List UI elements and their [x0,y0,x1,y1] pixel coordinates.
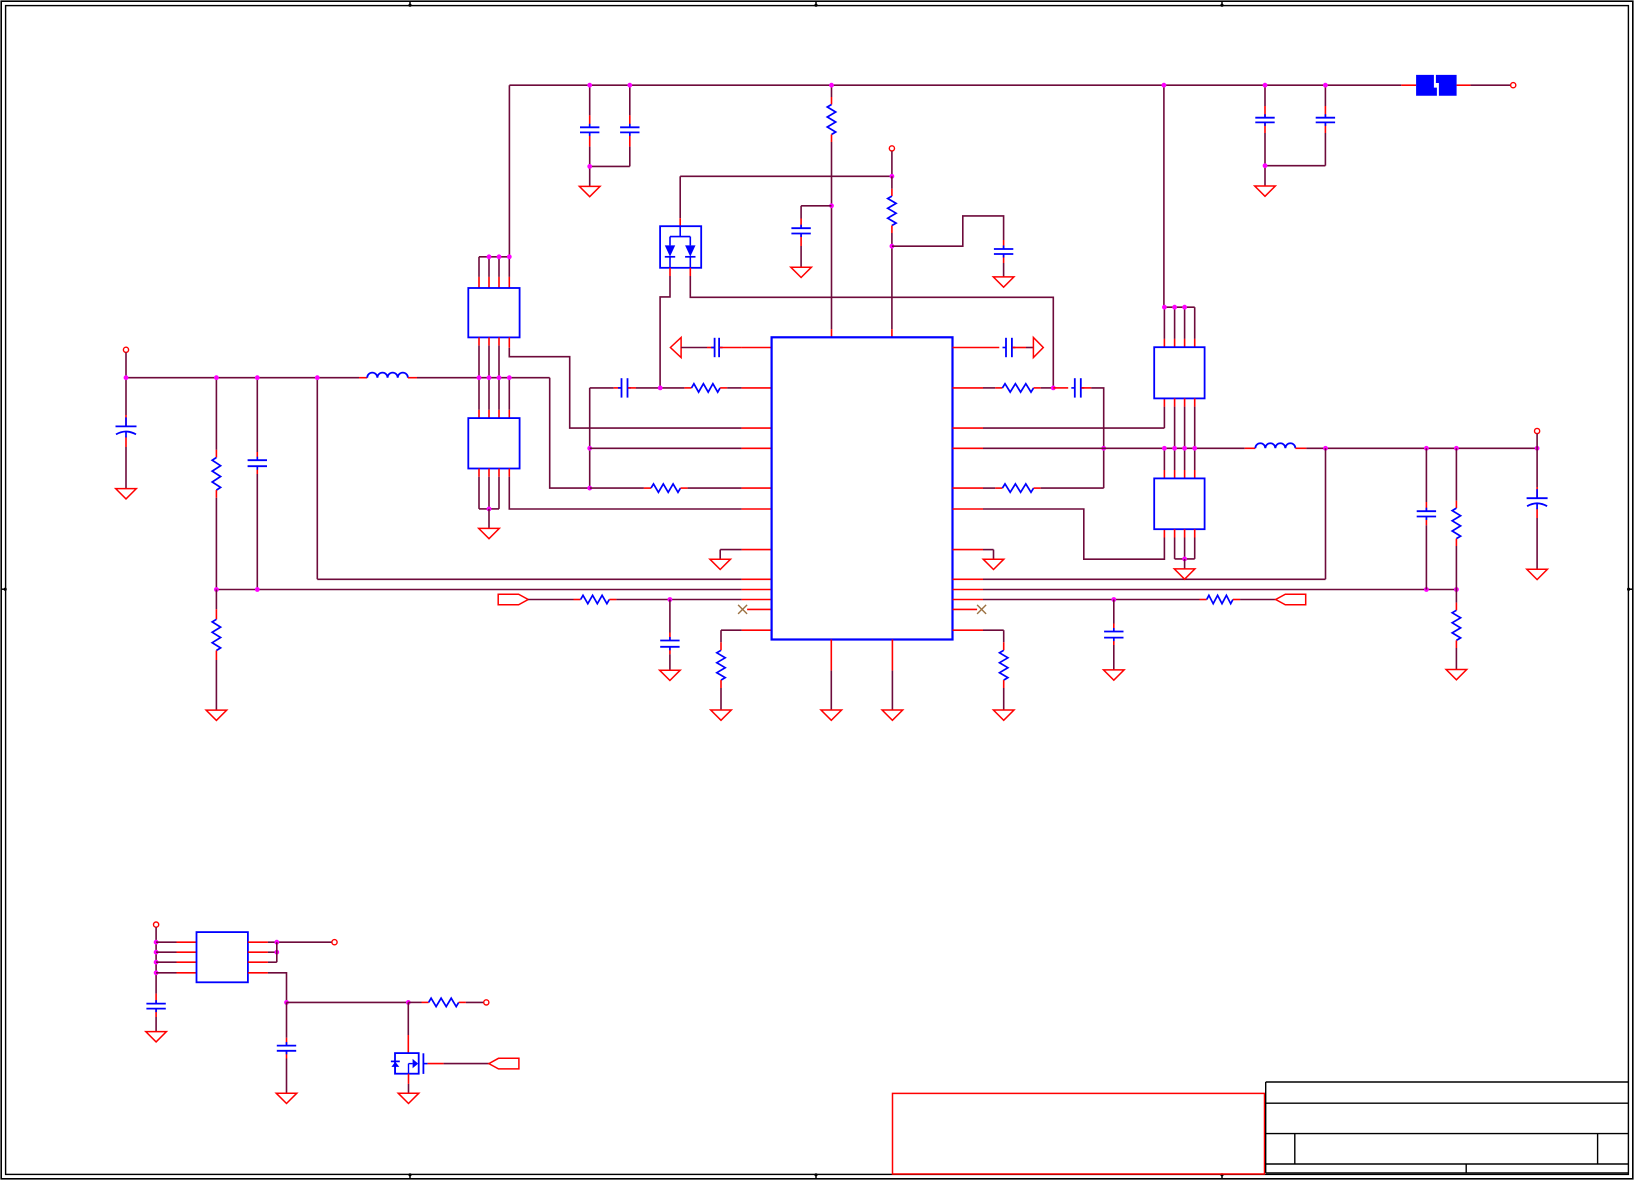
junction [587,164,592,169]
wire T3b pin4 bottom [1194,529,1196,559]
capacitor C3 [791,225,810,237]
junction [587,83,592,88]
junction [1192,446,1197,451]
ground G10 [711,710,732,720]
resistor R7 [581,595,610,603]
junction [1424,587,1429,592]
border zone tick bottom [814,1173,817,1179]
wire R6 top [215,590,217,620]
wire C15 stem [1536,448,1538,569]
wire T2b pin1 bottom [479,469,489,509]
junction [124,375,129,380]
wire T4 down [1536,434,1538,449]
terminal VBUS right [1511,83,1516,88]
wire node to R15 [408,1001,428,1003]
capacitor C2 [620,124,639,136]
wire U1 to R10 [953,487,1003,489]
junction [487,375,492,380]
wire C8 stem [256,378,258,590]
wire C13 corner down [1081,388,1103,488]
wire J1 right stub [1457,84,1471,86]
ground G3 [1255,186,1276,196]
junction [829,83,834,88]
wire F1 to R7 [528,599,580,601]
wire T3a pin2 bottom [1174,398,1176,478]
resistor R14 [1000,650,1008,680]
wire U2 pin4 down [248,973,287,1003]
wire bundle pin1 top [478,257,480,288]
wire R2 top [891,176,893,196]
diode pack D1 box [660,226,701,268]
capacitor C10 [618,378,631,397]
wire R13 to F2 [1233,599,1276,601]
wire Q1 drain [407,1002,409,1053]
wire T2 down [891,151,893,176]
wire C18 stem [286,1002,288,1093]
junction [154,940,159,945]
wire C9 to U1 [720,347,772,349]
junction [1051,386,1056,391]
ic U2 [197,932,248,982]
capacitor C8 [248,457,267,470]
junction [255,587,260,592]
wire row549 left [720,550,771,560]
capacitor C18 [277,1042,296,1054]
wire T3a pin1 top [1163,307,1165,347]
junction [1535,446,1540,451]
junction [1323,83,1328,88]
wire T2a pin2 bottom [488,337,490,409]
ground G14 [1446,670,1467,680]
terminal T2 [889,146,894,151]
wire C10 drop [589,388,591,488]
resistor R2 [888,196,896,225]
wire T3a pin4 bottom [1194,398,1196,478]
wire R15 to T7 [459,1001,484,1003]
wire T3 down [125,352,127,377]
wire R8 bottom [720,680,722,710]
resistor R11 [1452,508,1460,538]
port arrow P2 [1033,338,1043,358]
wire C1 stem [589,85,591,166]
junction [214,375,219,380]
wire U1 row599 right [953,599,1207,601]
resistor R5 [651,484,681,492]
capacitor C13 [1071,378,1084,397]
wire node246 to C6 [892,216,1004,277]
junction [1424,446,1429,451]
junction [1263,83,1268,88]
junction [1263,163,1268,168]
junction [487,507,492,512]
offpage port F3 [489,1058,519,1069]
junction [274,940,279,945]
wire node176 drop to D1 [679,176,681,226]
revision box [893,1093,1265,1174]
wire bundle pin3 top [498,257,500,288]
junction [154,970,159,975]
capacitor C5 [1316,114,1335,126]
ground G6 [479,528,500,538]
wire R10 corner up [1034,487,1104,489]
junction [507,375,512,380]
wire node1002 [287,1001,409,1003]
wire row630 left [721,630,772,650]
resistor R4 [692,384,721,392]
terminal T4 [1535,428,1540,433]
wire node to C13 [1053,387,1068,389]
wire row589 right [953,589,1457,591]
no-connect pin left [738,605,772,614]
junction [1162,446,1167,451]
wire U1 to C12 [953,347,1000,349]
wire T2a pin4 to U1 [509,337,771,428]
wire R4 to U1 [720,387,772,389]
wire U1 bottom pin1 [830,640,832,711]
wire rail corner to row488 [550,378,590,488]
wire C4 stem [1264,85,1266,166]
capacitor C12 [1003,338,1016,357]
junction [315,375,320,380]
wire C10 to R4 [628,387,691,389]
capacitor C11 [660,637,679,650]
wire C5 stem [1265,85,1325,166]
wire T3b pin3 bottom [1184,529,1186,559]
no-connect pin right [953,605,987,614]
wire T2a pin3 bottom [498,337,500,409]
ground G15 [1527,569,1548,579]
border zone tick bottom [408,1173,411,1179]
wire R7 to U1 [609,599,771,601]
wire R1 bottom [831,135,833,338]
junction [284,1000,289,1005]
ground G13 [983,559,1004,569]
terminal T3 [123,347,128,352]
filter T3b [1154,478,1204,529]
junction [1182,557,1187,562]
border zone tick top [814,1,817,7]
wire R11 top [1455,448,1457,508]
wire bundle pin4 top [508,257,510,288]
wire C12 to P2 [1013,347,1034,349]
wire T3a pin3 top [1184,307,1186,347]
wire U1 bottom pin2 [891,640,893,711]
junction [1111,597,1116,602]
wire L1 right [408,377,550,379]
capacitor C16 [1104,628,1123,641]
junction [890,244,895,249]
ground G12 [882,710,903,720]
wire row448 right [953,447,1256,449]
wire R5 to U1 [681,487,772,489]
wire T5 down [155,927,157,993]
wire bundle ground stem [488,509,490,529]
border zone tick top [1220,1,1223,7]
wire P1 to C9 [681,347,714,349]
wire C2 stem [590,85,630,166]
junction [668,597,673,602]
border zone tick left [1,588,7,591]
wire C11 stem [669,600,671,671]
capacitor C15 polarized [1527,489,1548,509]
junction [1323,446,1328,451]
junction [1162,83,1167,88]
wire T2a pin1 bottom [478,337,480,409]
resistor R3 [212,458,220,491]
junction [406,1000,411,1005]
wire row549 right [953,550,994,560]
junction [497,254,502,259]
ground G2 [791,267,812,277]
wire C1 C2 ground stem [589,166,591,186]
junction [1101,446,1106,451]
wire T3a top bus [1164,306,1195,308]
wire bundle top bus [479,256,509,258]
inductor L2 [1255,443,1295,448]
offpage port F1 [498,594,528,605]
terminal T5 [154,922,159,927]
junction [497,375,502,380]
wire R11 bottom [1455,539,1457,590]
junction [1172,305,1177,310]
capacitor C6 [994,246,1013,258]
resistor R13 [1207,595,1233,603]
junction [587,446,592,451]
ground G1 [579,186,600,196]
wire R2 bottom [891,226,893,338]
junction [1454,446,1459,451]
wire VBUS left drop [508,85,510,257]
ground G11 [821,710,842,720]
ground G18 [1174,569,1195,579]
ground G9 [660,670,681,680]
resistor R9 [1002,384,1033,392]
terminal T7 [484,1000,489,1005]
ground G17 [993,710,1014,720]
wire VBUS drop to T1 bus [1163,85,1165,307]
wire C16 stem [1113,600,1115,670]
wire D1 pin1 down [660,268,670,388]
wire row579 left [317,578,771,580]
junction [274,950,279,955]
transistor Q1 [391,1053,428,1074]
ground G16 [1104,670,1125,680]
connector J1 [1416,75,1457,96]
offpage port F2 [1276,594,1306,605]
wire Q1 source [408,1074,410,1094]
junction [154,960,159,965]
ground G21 [398,1093,419,1103]
wire row428 right [953,398,1165,428]
border zone tick bottom [1220,1173,1223,1179]
border zone tick top [408,1,411,7]
junction [890,174,895,179]
wire node176 left [680,175,892,177]
capacitor C14 [1417,508,1436,520]
wire bundle pin2 top [488,257,490,288]
wire row509 right [953,509,1165,559]
junction [1162,305,1167,310]
wire U1 to R9 [953,387,1003,389]
wire VBUS to connector right [1470,84,1510,86]
ground G19 [146,1032,167,1042]
wire row630 right [953,630,1004,650]
junction [507,254,512,259]
terminal T6 [332,940,337,945]
wire T3a pin2 top [1174,307,1176,347]
ic U1 [772,337,953,639]
diode D1a [665,226,691,268]
filter T3a [1154,347,1204,398]
wire T3b pin2 bottom [1175,529,1195,559]
wire Q1 gate [428,1063,489,1065]
ground G5 [116,489,137,499]
wire C14 stem [1425,448,1427,589]
resistor R15 [429,998,459,1006]
junction [154,950,159,955]
wire U2 out2 [248,951,277,953]
wire row579 right [953,448,1326,579]
wire R14 bottom [1003,680,1005,710]
ground G7 [710,559,731,569]
wire U2 in rows [156,942,196,973]
capacitor C7 polarized [116,417,137,437]
resistor R6 [212,619,220,650]
capacitor C9 [711,338,723,357]
resistor R8 [717,650,725,680]
wire bundle pin4 mid [508,378,510,410]
port arrow P1 [670,338,681,358]
wire R9 to node [1034,387,1054,389]
junction [1454,587,1459,592]
resistor R12 [1452,610,1460,640]
capacitor C1 [580,124,599,136]
wire C3 branch [801,206,831,267]
wire T2b pin stubs top [479,410,509,418]
resistor R10 [1002,484,1033,492]
inductor L1 [367,373,408,378]
wire J1 left stub [1401,84,1416,86]
wire U2 out1 [248,941,332,943]
wire C17 stem [155,994,157,1032]
border zone tick right [1627,588,1633,591]
wire rail to row579 [316,378,318,580]
wire T3b pin1 top [1163,448,1165,478]
ground G20 [276,1093,297,1103]
wire U2 out12 tie [248,942,277,962]
ground G8 [206,710,227,720]
wire R6 bottom [215,651,217,711]
wire T3b ground stem [1184,559,1186,569]
wire row488 left [590,487,651,489]
junction [214,587,219,592]
wire R3 top [215,378,217,458]
wire row589 left [216,589,771,591]
junction [658,386,663,391]
resistor R1 [827,105,835,135]
wire input rail [126,377,367,379]
wire R1 top [831,85,833,104]
wire R3 bottom [215,490,217,589]
wire C7 stem [125,378,127,489]
wire T3a pin4 top [1194,307,1196,347]
wire R12 bottom [1455,640,1457,669]
capacitor C17 [146,1000,165,1012]
junction [487,254,492,259]
junction [1182,305,1187,310]
wire T3a pin3 bottom [1184,398,1186,478]
wire row388 left [590,387,621,389]
diode D1b [685,237,695,268]
junction [829,203,834,208]
junction [255,375,260,380]
wire L2 right [1295,447,1537,449]
junction [1182,446,1187,451]
junction [587,486,592,491]
junction [627,83,632,88]
wire T2b pin3 bottom [489,469,499,509]
wire row448 left [590,447,772,449]
wire T2b pin4 to U1 row509 [509,469,771,510]
wire C4 C5 ground stem [1264,166,1266,186]
wire R12 top [1455,590,1457,611]
wire D1 pin2 down [690,268,1053,388]
wire T2b pin2 bottom [488,469,490,509]
title block frame [1266,1082,1629,1173]
filter T2b [468,418,519,468]
wire VBUS top rail [509,84,1401,86]
junction [1172,446,1177,451]
ground G4 [993,277,1014,287]
filter T2a [468,288,519,337]
capacitor C4 [1255,114,1274,126]
junction [477,375,482,380]
